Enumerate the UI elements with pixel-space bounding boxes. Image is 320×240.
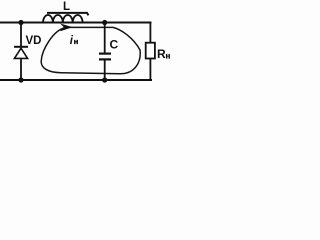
node: junction dot diode bottom <box>18 77 23 82</box>
wire bottom rail <box>0 79 152 81</box>
capacitor C: bottom plate <box>99 58 111 60</box>
svg-text:C: C <box>110 38 119 52</box>
wire top rail <box>0 22 152 24</box>
capacitor C: top plate <box>99 52 111 54</box>
node: junction dot capacitor bottom <box>102 77 107 82</box>
svg-text:VD: VD <box>26 35 42 47</box>
diode VD: cathode bar <box>14 46 28 48</box>
node: junction dot capacitor top <box>102 20 107 25</box>
capacitor C: top wire <box>104 23 106 54</box>
wire right branch <box>149 22 151 44</box>
inductor L: core bar <box>47 13 89 15</box>
node: junction dot diode top <box>18 20 23 25</box>
wire left branch (diode branch) <box>20 23 22 48</box>
svg-text:н: н <box>166 52 171 61</box>
inductor L: humps <box>43 15 83 23</box>
arrowhead on current loop <box>61 24 72 31</box>
svg-text:L: L <box>63 1 70 13</box>
resistor Rн: body <box>146 43 155 59</box>
current loop iн (oval) <box>41 27 140 73</box>
capacitor C: bottom wire <box>104 60 106 80</box>
diode VD: triangle <box>14 48 27 58</box>
svg-text:н: н <box>74 37 79 46</box>
